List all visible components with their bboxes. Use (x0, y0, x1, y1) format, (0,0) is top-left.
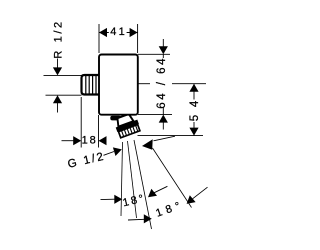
outlet nozzle assembly (tilted 20deg: neck, cone, collar, knurled coupling) (110, 112, 141, 138)
angle label 18 degrees #2 (between axis and 36deg line) (128, 187, 208, 223)
label G 1/2 (outlet thread) with leader arrow (67, 147, 122, 170)
dimension 54 (thread axis to outlet, right) (138, 84, 207, 136)
svg-text:R 1/2: R 1/2 (52, 19, 64, 58)
dimension 64 / 64 (faceplate size, right) (138, 39, 172, 130)
svg-text:41: 41 (110, 26, 127, 38)
arrowhead pointing at outlet tip (top of 36deg line) (142, 139, 153, 149)
dimension 41 (top width) (99, 24, 138, 53)
dimension R 1/2 (thread size, left, rotated label with arrows) (44, 19, 82, 112)
spray direction fan lines (vertical, jet edge, axis, 36deg) (121, 140, 192, 229)
angle label 18 degrees #1 (between vertical and axis line) (101, 186, 168, 209)
wall outlet body (rounded square, side view) (99, 55, 138, 115)
svg-text:18: 18 (82, 135, 98, 147)
dimension 18 (thread length, bottom left) (62, 97, 107, 148)
threaded inlet pipe R1/2 (left, with thread hatching) (82, 75, 100, 95)
svg-text:54: 54 (189, 93, 201, 121)
leader tail joining 54 extension line (154, 136, 176, 141)
svg-text:64 / 64: 64 / 64 (156, 56, 168, 109)
